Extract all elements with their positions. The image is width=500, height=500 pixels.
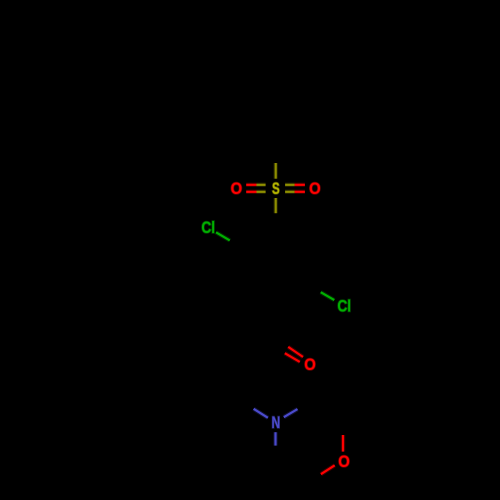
halo Cl1 bond — [216, 232, 230, 240]
morpholine O lower-left bond (oxygen half) — [321, 465, 335, 474]
svg-text:N: N — [271, 414, 280, 432]
C=O carbonyl double bond line 1 (oxygen half) — [288, 347, 303, 357]
halo N upper-right bond — [284, 409, 298, 417]
N upper-left bond (nitrogen half) — [254, 409, 268, 418]
Cl2 to ring bond (chlorine half) — [321, 292, 335, 300]
methyl-S bond (sulfur half) — [275, 163, 277, 179]
halo S=O left upper olive — [257, 183, 266, 187]
svg-text:O: O — [231, 180, 243, 198]
S=O left double bond upper line — [246, 184, 256, 186]
halo N down bond — [273, 432, 277, 445]
svg-text:Cl: Cl — [337, 297, 351, 315]
halo S=O right upper red — [295, 183, 305, 187]
svg-text:O: O — [309, 180, 321, 198]
S to ring bond (sulfur half) — [275, 198, 277, 213]
S=O right double bond upper line — [285, 184, 295, 186]
halo morpholine-O up bond — [341, 435, 345, 452]
halo S=O right lower red — [295, 190, 305, 194]
halo S-ring bond — [274, 198, 278, 213]
halo S=O right upper olive — [285, 183, 295, 187]
Cl1 to ring bond (chlorine half) — [216, 232, 230, 240]
halo S=O right lower olive — [285, 190, 295, 194]
halo S=O left lower red — [246, 190, 256, 194]
halo methyl-S bond — [274, 163, 278, 179]
halo S=O left upper red — [246, 183, 256, 187]
halo N upper-left bond — [254, 409, 268, 418]
svg-text:S: S — [272, 180, 280, 199]
S=O right double bond lower line — [285, 191, 295, 193]
N upper-right bond (nitrogen half) — [284, 409, 298, 417]
svg-text:O: O — [338, 453, 350, 471]
svg-text:O: O — [304, 356, 316, 374]
morpholine O upward bond (oxygen half) — [342, 435, 344, 452]
halo Cl2 bond — [321, 292, 335, 300]
S=O left double bond lower line — [246, 191, 256, 193]
svg-text:Cl: Cl — [201, 219, 215, 237]
halo C=O line1 — [288, 347, 303, 357]
halo C=O line2 — [285, 353, 300, 362]
N downward bond (nitrogen half) — [274, 432, 276, 445]
C=O carbonyl double bond line 2 (oxygen half) — [285, 353, 300, 362]
halo morpholine-O lower-left bond — [321, 465, 335, 474]
halo S=O left lower olive — [257, 190, 266, 194]
